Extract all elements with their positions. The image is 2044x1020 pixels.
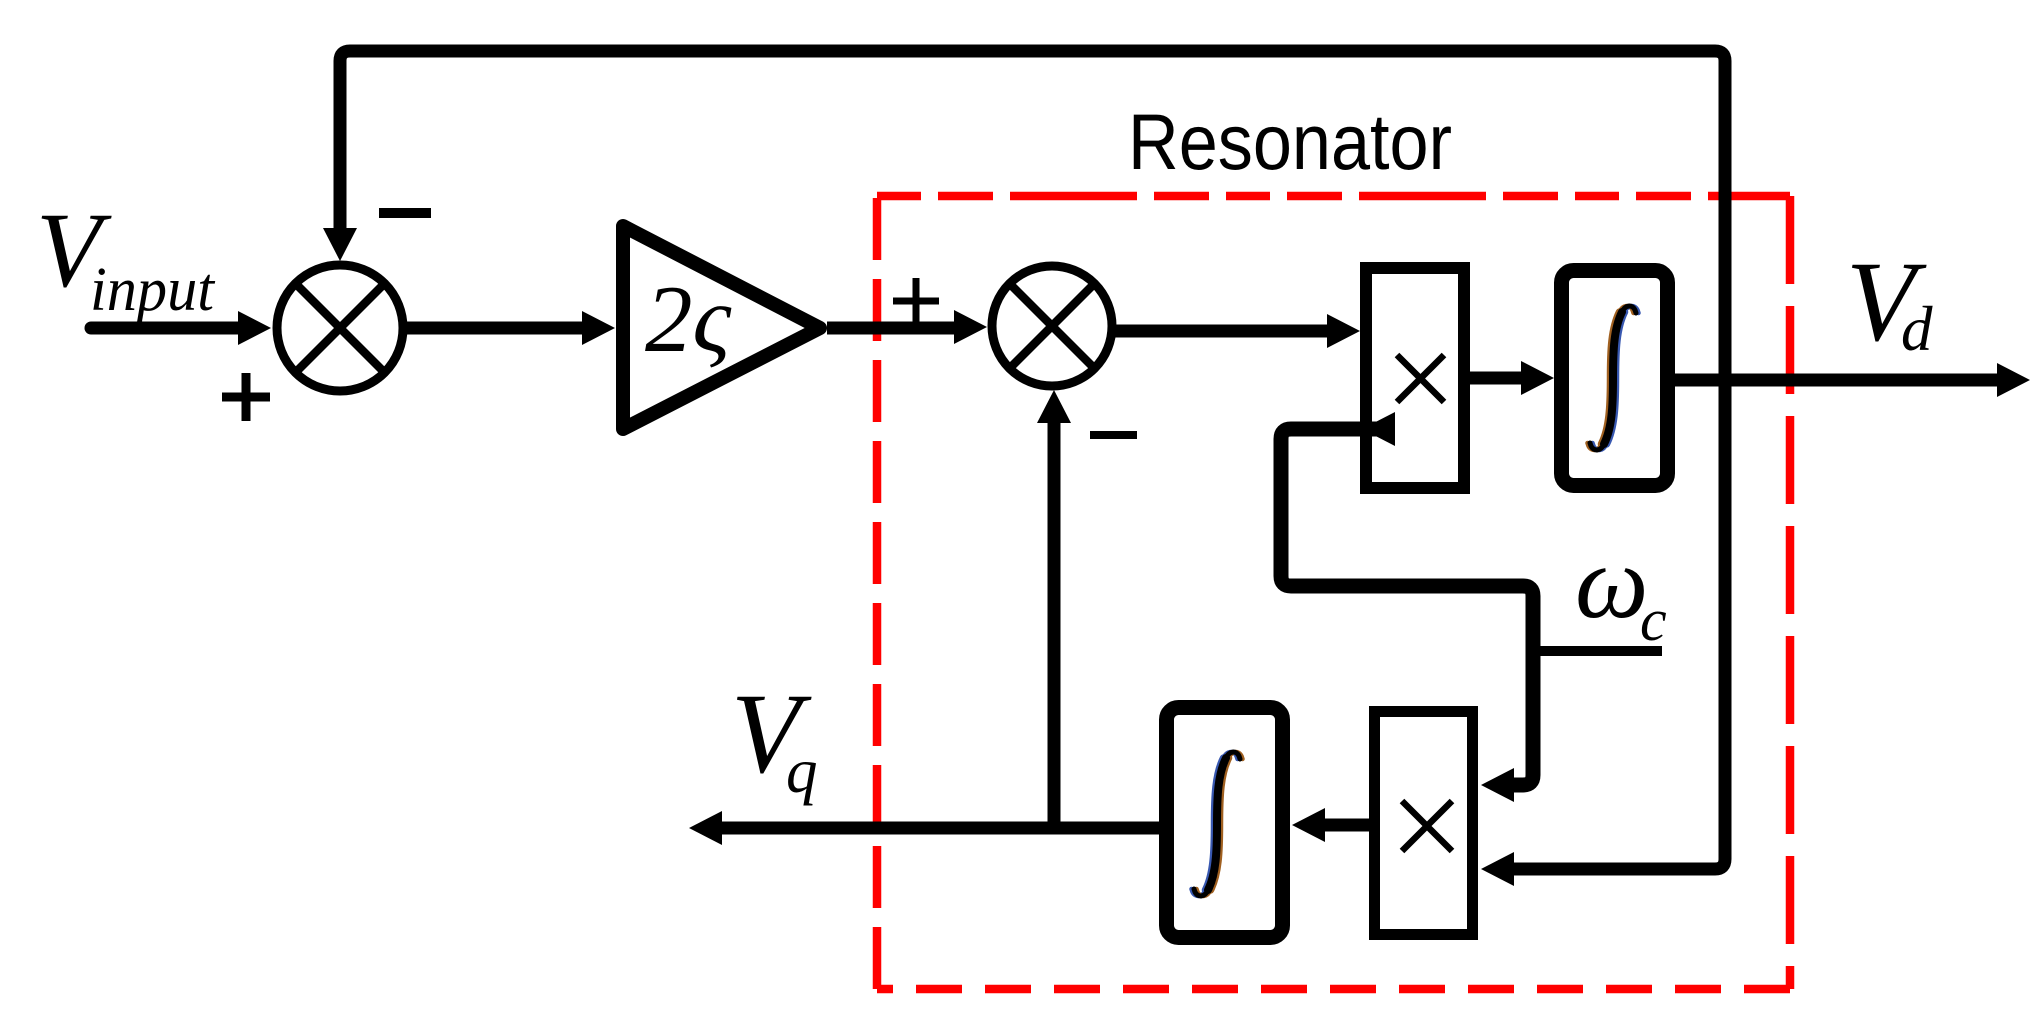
- svg-text:q: q: [786, 736, 818, 806]
- gain amplifier triangle 2ς: [623, 226, 820, 429]
- minus sign at S1 feedback input: [379, 208, 431, 218]
- wire: gain amplifier to summing junction S2: [827, 322, 958, 335]
- arrowhead into I1: [1521, 361, 1554, 395]
- arrowhead Vd output: [1997, 363, 2030, 397]
- arrowhead into S2: [954, 310, 987, 344]
- arrowhead into S2 from below: [1037, 390, 1071, 423]
- wire: negative feedback from Vd node over the top into summing junction S1: [340, 51, 1725, 869]
- wire: Vinput into summing junction S1: [91, 322, 250, 335]
- arrowhead into multiplier M2 (Vd feedback input): [1481, 852, 1514, 886]
- wire: M2 to integrator I2: [1322, 819, 1369, 832]
- arrowhead into gain amplifier: [582, 311, 615, 345]
- wire: Vq line up into S2 (minus input): [1048, 420, 1061, 828]
- arrowhead Vq output: [689, 811, 722, 845]
- integral sign in I1: [1588, 306, 1639, 450]
- integrator I2 block: [1167, 708, 1283, 938]
- multiplier M2 block: [1375, 712, 1473, 935]
- minus sign at S2 lower input: [1090, 431, 1137, 439]
- arrowhead into M1: [1327, 314, 1360, 348]
- wire: M1 to integrator I1: [1470, 372, 1524, 385]
- wire: S1 to gain amplifier: [401, 322, 585, 335]
- wire: S2 to multiplier M1: [1115, 325, 1330, 338]
- multiply symbol in M2: [1402, 801, 1452, 851]
- wire: I2 output Vq line to the left: [719, 822, 1160, 835]
- junction node on Vd line: [1716, 371, 1734, 389]
- svg-text:input: input: [90, 256, 216, 324]
- arrowhead Vinput into S1: [238, 311, 271, 345]
- svg-text:2ς: 2ς: [645, 266, 732, 372]
- plus sign at S1 input: [222, 373, 270, 421]
- multiply symbol in M1: [1397, 355, 1444, 402]
- svg-text:ω: ω: [1575, 525, 1648, 640]
- plus sign at S2 input: [893, 278, 939, 324]
- summing junction S2: [992, 266, 1112, 386]
- wire: omega-c distribution path into M1 and M2: [1281, 429, 1533, 785]
- summing junction S1: [277, 265, 403, 391]
- Resonator dashed boundary box (red): [877, 196, 1790, 989]
- svg-text:c: c: [1640, 587, 1667, 653]
- svg-text:d: d: [1901, 294, 1933, 364]
- integrator I1 block: [1562, 271, 1668, 486]
- wire: omega-c input stub: [1533, 646, 1662, 656]
- svg-text:Resonator: Resonator: [1128, 97, 1452, 186]
- integral sign in I2: [1192, 752, 1243, 896]
- wire: I1 output Vd line to the right: [1675, 374, 2000, 387]
- arrowhead into S1 (minus input, from top): [323, 228, 357, 261]
- arrowhead into I2: [1292, 808, 1325, 842]
- arrowhead into M2 upper input: [1481, 768, 1514, 802]
- multiplier M1 block: [1366, 268, 1464, 488]
- arrowhead into M1 lower input: [1362, 412, 1395, 446]
